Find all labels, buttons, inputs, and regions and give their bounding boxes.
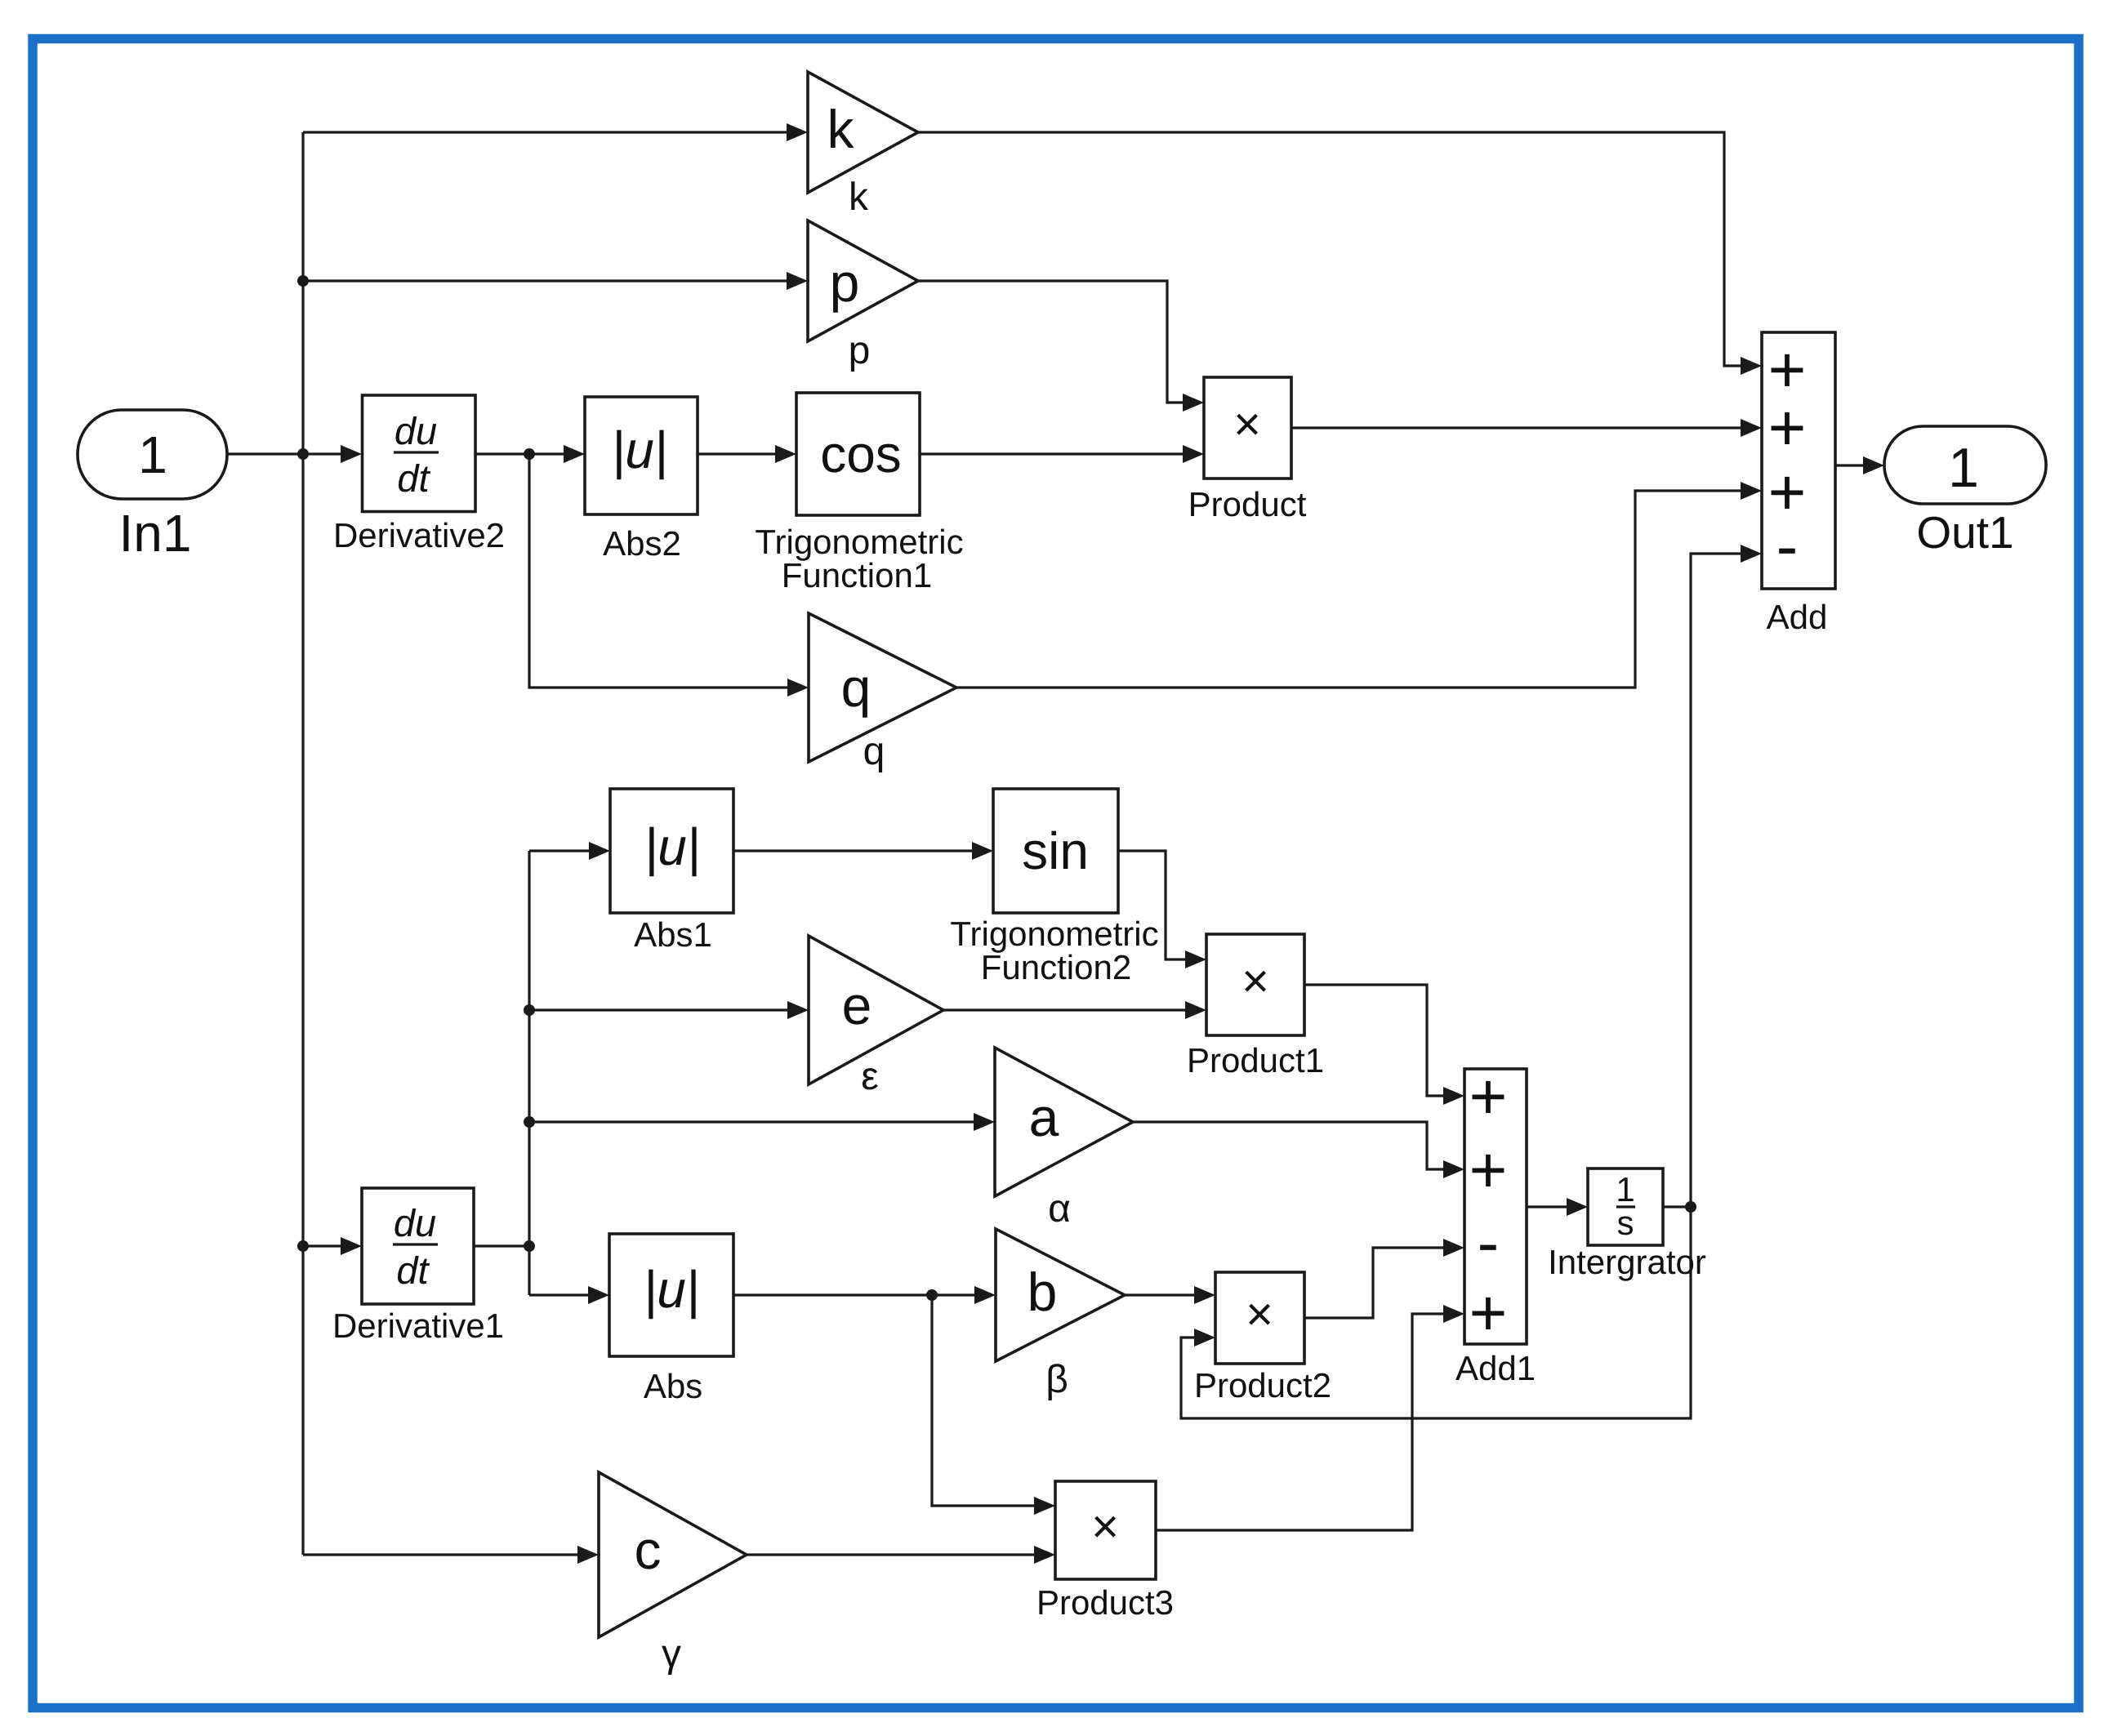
gain c xyxy=(599,1472,747,1637)
svg-text:Product3: Product3 xyxy=(1036,1583,1174,1622)
svg-text:Abs: Abs xyxy=(644,1367,702,1405)
svg-text:|u|: |u| xyxy=(644,1260,700,1320)
block Abs xyxy=(609,1234,733,1356)
svg-text:p: p xyxy=(849,329,871,372)
gain e xyxy=(809,936,943,1084)
wire e to Product1 xyxy=(943,1008,1185,1011)
svg-text:Product2: Product2 xyxy=(1194,1366,1331,1404)
svg-text:sin: sin xyxy=(1022,821,1089,880)
gain k xyxy=(808,72,918,193)
svg-text:b: b xyxy=(1028,1262,1058,1322)
wire a to Add1 xyxy=(1133,1122,1443,1169)
svg-text:Intergrator: Intergrator xyxy=(1548,1243,1706,1281)
svg-text:+: + xyxy=(1469,1060,1508,1133)
svg-text:Out1: Out1 xyxy=(1916,507,2013,558)
svg-text:dt: dt xyxy=(397,456,430,500)
wire Product1 to Add1 xyxy=(1304,985,1443,1096)
wire p output to Product xyxy=(918,281,1183,403)
wire k output to Add xyxy=(918,132,1741,366)
wire Abs2 to cos xyxy=(698,452,775,455)
svg-text:Derivative1: Derivative1 xyxy=(332,1306,504,1345)
block Product3 xyxy=(1055,1481,1156,1579)
block Add xyxy=(1762,332,1835,589)
svg-text:α: α xyxy=(1048,1187,1071,1231)
wire Add1 to Integrator xyxy=(1527,1205,1567,1208)
wire c to Product3 xyxy=(747,1553,1034,1556)
gain b xyxy=(996,1229,1125,1361)
wire Integrator output xyxy=(1663,1205,1691,1208)
junction Abs output branch xyxy=(926,1289,938,1301)
junction Derivative1 branch xyxy=(297,1240,309,1252)
wire sin to Product1 xyxy=(1118,851,1185,959)
wire In1 to Derivative2 xyxy=(226,452,341,455)
svg-text:-: - xyxy=(1776,510,1799,582)
svg-text:p: p xyxy=(830,252,860,313)
svg-text:Function2: Function2 xyxy=(981,948,1131,986)
junction e branch xyxy=(524,1004,535,1016)
svg-text:×: × xyxy=(1241,955,1269,1008)
port Out1 xyxy=(1884,426,2046,504)
gain q xyxy=(809,613,956,762)
block Trigonometric Function1 cos xyxy=(796,393,920,515)
junction Derivative1 output xyxy=(524,1240,535,1252)
svg-text:ε: ε xyxy=(861,1055,878,1098)
svg-text:Add1: Add1 xyxy=(1455,1349,1536,1387)
wire Abs1 to sin xyxy=(733,849,972,852)
wire e input xyxy=(529,1008,787,1011)
svg-text:du: du xyxy=(394,1201,436,1244)
wire Abs1 input xyxy=(529,849,589,852)
svg-text:s: s xyxy=(1617,1204,1634,1242)
wire cos to Product xyxy=(920,452,1183,455)
junction a branch xyxy=(524,1116,535,1128)
svg-text:β: β xyxy=(1045,1358,1068,1401)
wire Product2 to Add1 xyxy=(1304,1248,1443,1318)
node Derivative1 output rail xyxy=(528,851,530,1295)
svg-text:×: × xyxy=(1233,398,1261,451)
svg-text:q: q xyxy=(841,657,872,718)
wire a input xyxy=(529,1120,974,1123)
wire b to Product2 xyxy=(1125,1293,1194,1296)
block Trigonometric Function2 sin xyxy=(993,789,1118,913)
port In1 xyxy=(78,410,227,499)
wire feedback to Product2 xyxy=(1181,1207,1691,1418)
svg-text:Product: Product xyxy=(1188,485,1307,523)
wire Add to Out1 xyxy=(1835,464,1863,466)
block Integrator xyxy=(1588,1168,1663,1245)
gain a xyxy=(995,1048,1133,1196)
junction Derivative2 output xyxy=(524,448,535,460)
block Derivative2 xyxy=(363,395,476,512)
block Abs1 xyxy=(610,789,733,913)
junction Integrator output xyxy=(1685,1201,1696,1213)
junction p branch xyxy=(297,275,309,287)
svg-text:Abs2: Abs2 xyxy=(603,524,681,563)
block Product1 xyxy=(1206,934,1304,1035)
svg-text:+: + xyxy=(1768,391,1807,464)
wire Derivative1 input xyxy=(303,1244,341,1247)
block Derivative1 xyxy=(362,1188,474,1304)
wire branch to q xyxy=(529,454,787,688)
svg-text:e: e xyxy=(842,975,872,1035)
svg-text:c: c xyxy=(635,1520,662,1580)
wire k input xyxy=(303,131,787,133)
block Product2 xyxy=(1215,1272,1304,1364)
wire c input xyxy=(303,1553,577,1556)
svg-text:q: q xyxy=(863,730,885,773)
svg-text:+: + xyxy=(1469,1133,1508,1206)
svg-text:-: - xyxy=(1478,1206,1500,1279)
block Product xyxy=(1204,377,1291,479)
node In1 source rail xyxy=(301,132,304,1555)
junction In1 branch xyxy=(297,448,309,460)
svg-text:|u|: |u| xyxy=(612,421,668,480)
gain p xyxy=(808,220,918,341)
svg-text:γ: γ xyxy=(662,1632,681,1676)
svg-text:1: 1 xyxy=(1948,437,1979,499)
wire Abs output to b xyxy=(733,1293,974,1296)
svg-text:k: k xyxy=(849,176,869,219)
svg-text:1: 1 xyxy=(138,425,167,484)
svg-text:Trigonometric: Trigonometric xyxy=(950,915,1158,953)
svg-text:×: × xyxy=(1091,1500,1119,1553)
svg-text:Trigonometric: Trigonometric xyxy=(755,523,963,561)
svg-text:|u|: |u| xyxy=(644,817,701,877)
svg-text:dt: dt xyxy=(396,1249,430,1292)
svg-text:1: 1 xyxy=(1616,1170,1634,1209)
wire q output to Add xyxy=(956,491,1741,688)
svg-text:+: + xyxy=(1469,1276,1508,1349)
wire p input xyxy=(303,279,787,282)
wire Derivative1 output xyxy=(474,1244,529,1247)
svg-text:In1: In1 xyxy=(119,504,192,563)
svg-text:du: du xyxy=(395,409,437,452)
wire branch to Product3 xyxy=(932,1295,1034,1506)
svg-text:cos: cos xyxy=(820,425,902,483)
block Abs2 xyxy=(585,397,698,514)
svg-text:Add: Add xyxy=(1767,598,1828,636)
svg-text:k: k xyxy=(827,99,855,159)
wire Derivative2 output xyxy=(475,452,564,455)
wire Product3 to Add1 xyxy=(1156,1314,1443,1530)
svg-text:Function1: Function1 xyxy=(782,556,932,594)
svg-text:a: a xyxy=(1029,1087,1059,1147)
svg-text:Product1: Product1 xyxy=(1187,1041,1324,1079)
svg-text:×: × xyxy=(1246,1288,1273,1341)
block Add1 xyxy=(1464,1069,1527,1344)
wire Abs input xyxy=(529,1293,588,1296)
wire Product to Add xyxy=(1291,426,1741,429)
wire Integrator rail to Add minus xyxy=(1691,554,1741,1207)
svg-text:Derivative2: Derivative2 xyxy=(333,516,505,554)
svg-text:Abs1: Abs1 xyxy=(634,915,712,954)
